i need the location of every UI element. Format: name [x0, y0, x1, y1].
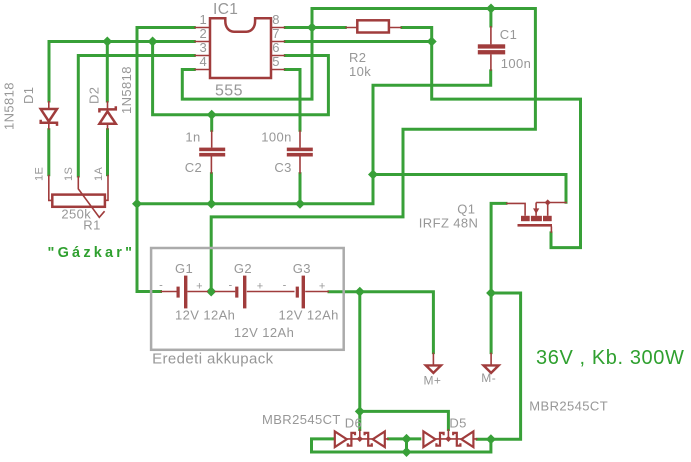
svg-text:"Gázkar": "Gázkar": [48, 245, 136, 261]
svg-text:R1: R1: [83, 218, 100, 233]
svg-text:1A: 1A: [93, 166, 105, 181]
svg-text:1N5818: 1N5818: [119, 66, 134, 114]
svg-text:+: +: [257, 280, 264, 292]
svg-text:5: 5: [272, 54, 280, 69]
svg-text:D1: D1: [21, 87, 36, 104]
svg-text:MBR2545CT: MBR2545CT: [529, 399, 608, 414]
svg-text:3: 3: [200, 40, 208, 55]
svg-text:+: +: [196, 280, 203, 292]
svg-text:R2: R2: [349, 50, 366, 65]
svg-text:8: 8: [272, 12, 280, 27]
svg-text:1S: 1S: [63, 167, 75, 181]
svg-text:2: 2: [200, 26, 208, 41]
svg-text:G1: G1: [175, 261, 193, 276]
svg-text:G3: G3: [293, 261, 311, 276]
svg-text:IC1: IC1: [213, 1, 238, 18]
svg-text:D5: D5: [449, 416, 466, 431]
svg-text:M+: M+: [424, 374, 442, 388]
svg-text:12V 12Ah: 12V 12Ah: [234, 325, 294, 340]
svg-text:7: 7: [272, 26, 280, 41]
svg-text:1E: 1E: [34, 167, 46, 181]
svg-text:36V , Kb. 300W: 36V , Kb. 300W: [536, 347, 684, 369]
svg-text:IRFZ 48N: IRFZ 48N: [419, 216, 479, 231]
svg-text:10k: 10k: [349, 64, 371, 79]
svg-text:100n: 100n: [501, 56, 532, 71]
svg-text:G2: G2: [234, 261, 252, 276]
svg-text:C3: C3: [274, 160, 291, 175]
svg-text:100n: 100n: [261, 130, 292, 145]
svg-text:555: 555: [215, 83, 243, 100]
svg-text:1n: 1n: [185, 130, 200, 145]
svg-text:C2: C2: [185, 160, 202, 175]
svg-text:4: 4: [200, 54, 208, 69]
svg-text:-: -: [229, 279, 233, 291]
svg-text:-: -: [283, 279, 287, 291]
svg-text:D2: D2: [87, 87, 102, 104]
svg-text:MBR2545CT: MBR2545CT: [262, 412, 341, 427]
svg-text:Q1: Q1: [457, 202, 475, 217]
svg-text:12V 12Ah: 12V 12Ah: [279, 307, 339, 322]
svg-text:6: 6: [272, 40, 280, 55]
svg-text:12V 12Ah: 12V 12Ah: [175, 307, 235, 322]
svg-text:M-: M-: [481, 371, 496, 385]
svg-text:C1: C1: [500, 27, 517, 42]
svg-text:1: 1: [200, 12, 208, 27]
svg-text:Eredeti akkupack: Eredeti akkupack: [152, 351, 274, 368]
svg-text:+: +: [319, 280, 326, 292]
svg-text:1N5818: 1N5818: [2, 82, 17, 130]
svg-text:D6: D6: [345, 416, 362, 431]
svg-text:-: -: [159, 279, 163, 291]
